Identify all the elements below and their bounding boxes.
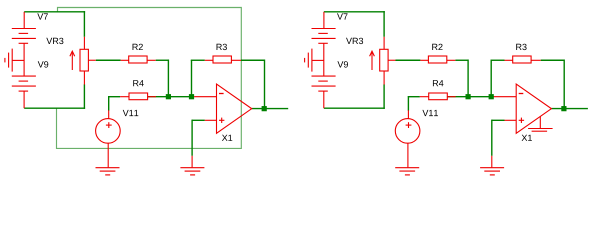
battery V9 plate short 2 <box>318 90 328 92</box>
battery V7 top lead <box>23 12 25 29</box>
wire battery mid lead <box>323 43 325 76</box>
ground V11 bar 3 <box>105 174 110 176</box>
resistor R2 body <box>428 56 446 63</box>
resistor R3 body <box>213 56 231 63</box>
battery V9 plate short 2 <box>19 90 29 92</box>
wire non-inverting down to ground <box>491 120 493 156</box>
wire VR3 wiper to R2 <box>96 59 121 61</box>
label V11 <box>123 110 139 116</box>
potentiometer VR3 arrow <box>371 52 373 70</box>
wire R4 left to V11 tap <box>108 96 120 98</box>
ground non-inverting lead <box>191 156 193 168</box>
wire VR3 bottom lead segment <box>383 84 385 109</box>
ground non-inverting lead <box>491 156 493 168</box>
ground V11 bar 3 <box>405 174 410 176</box>
potentiometer VR3 body <box>80 49 88 71</box>
battery V7 plate short 2 <box>19 42 29 44</box>
ground non-inverting bar 3 <box>190 174 195 176</box>
node R3 tap junction <box>489 94 494 99</box>
battery V7 plate short 1 <box>318 32 328 34</box>
label R2 <box>133 44 143 50</box>
resistor R4 left lead <box>120 96 129 98</box>
label V9 <box>38 61 49 67</box>
ground non-inverting bar 2 <box>185 170 201 172</box>
op-amp X1 triangle <box>217 84 252 133</box>
op-amp X1 reference pin lead <box>539 116 541 128</box>
wire R3 tap down <box>490 60 492 97</box>
resistor R3 body <box>513 56 531 63</box>
resistor R3 right lead <box>231 59 241 61</box>
source V11 top lead <box>407 110 409 118</box>
wire top rail (battery + to VR3 top) <box>24 11 85 13</box>
op-amp X1 plus symbol <box>219 119 224 121</box>
wire R2 to inverting drop <box>156 59 169 61</box>
source V11 top lead <box>108 110 110 118</box>
label VR3 <box>346 38 363 44</box>
wire R2 drop down to inverting node <box>467 60 469 97</box>
ground left bar short <box>4 58 6 63</box>
resistor R2 left lead <box>121 59 129 61</box>
op-amp X1 plus symbol <box>519 119 524 121</box>
op-amp X1 triangle <box>516 84 551 133</box>
label R2 <box>432 44 442 50</box>
label V7 <box>37 13 48 19</box>
resistor R2 body <box>129 56 147 63</box>
ground left bar long <box>311 49 313 72</box>
op-amp X1 inverting input pin <box>194 96 216 98</box>
source V11 circle <box>96 119 121 144</box>
wire R2 drop down to inverting node <box>167 60 169 97</box>
wire inverting node to R3 tap node <box>168 96 194 98</box>
ground non-inverting bar 1 <box>180 167 204 169</box>
op-amp X1 reference ground bar 2 <box>532 130 548 132</box>
battery V9 plate long 2 <box>312 85 336 87</box>
wire R4 right to inverting node <box>148 96 169 98</box>
wire feedback loop (light green) <box>57 8 242 149</box>
ground non-inverting bar 1 <box>480 167 504 169</box>
wire V11 drop <box>108 96 110 111</box>
ground V11 bar 2 <box>399 170 415 172</box>
wire VR3 top lead segment <box>83 11 85 37</box>
ground left bar long <box>11 49 13 72</box>
potentiometer VR3 bottom lead <box>383 71 385 85</box>
battery V9 plate short 1 <box>19 80 29 82</box>
battery V7 plate long 2 <box>312 37 336 39</box>
resistor R4 body <box>129 93 148 100</box>
wire bottom rail (battery - to VR3 bottom) <box>324 107 385 109</box>
resistor R4 left lead <box>420 96 429 98</box>
resistor R2 left lead <box>420 59 428 61</box>
label V11 <box>422 110 438 116</box>
potentiometer VR3 top lead <box>83 37 85 50</box>
ground V11 bar 1 <box>395 167 419 169</box>
resistor R3 left lead <box>205 59 213 61</box>
wire non-inverting input horizontal <box>192 119 205 121</box>
source V11 plus sign <box>106 124 112 126</box>
op-amp X1 minus symbol <box>519 93 524 95</box>
battery V9 bottom lead <box>323 91 325 108</box>
resistor R4 right lead <box>447 96 455 98</box>
wire op-amp output <box>252 108 289 110</box>
op-amp X1 non-inverting input pin <box>505 119 517 121</box>
resistor R2 right lead <box>447 59 456 61</box>
ground left bar medium <box>8 53 10 68</box>
wire R3 right horizontal <box>541 59 565 61</box>
wire R3 right horizontal <box>241 59 265 61</box>
battery V9 plate long 2 <box>12 85 36 87</box>
wire R4 left to V11 tap <box>408 96 420 98</box>
node op-amp output junction <box>561 106 566 111</box>
source V11 plus sign <box>406 124 412 126</box>
ground left (battery midpoint) lead <box>312 59 324 61</box>
battery V9 plate long 1 <box>312 75 336 77</box>
wire R3 output down <box>264 60 266 109</box>
wire battery mid lead <box>23 43 25 76</box>
wire op-amp output <box>551 108 588 110</box>
potentiometer VR3 wiper lead <box>89 59 96 61</box>
wire R3 left horizontal <box>191 59 205 61</box>
label X1 <box>222 135 232 141</box>
op-amp X1 inverting input pin <box>494 96 516 98</box>
wire V11 drop <box>407 96 409 111</box>
resistor R3 left lead <box>505 59 513 61</box>
ground left (battery midpoint) lead <box>12 59 24 61</box>
wire non-inverting down to ground <box>191 120 193 156</box>
label V9 <box>337 61 348 67</box>
wire R2 to inverting drop <box>455 59 468 61</box>
wire VR3 top lead segment <box>383 11 385 37</box>
label R3 <box>217 44 227 50</box>
wire VR3 wiper to R2 <box>396 59 421 61</box>
resistor R3 right lead <box>531 59 541 61</box>
ground non-inverting bar 2 <box>484 170 500 172</box>
resistor R2 right lead <box>147 59 156 61</box>
wire R3 output down <box>563 60 565 109</box>
resistor R4 right lead <box>148 96 156 98</box>
potentiometer VR3 wiper lead <box>388 59 395 61</box>
node R3 tap junction <box>189 94 194 99</box>
wire non-inverting input horizontal <box>492 119 505 121</box>
battery V9 bottom lead <box>23 91 25 108</box>
battery V7 plate long 1 <box>312 28 336 30</box>
op-amp X1 non-inverting input pin <box>205 119 217 121</box>
ground non-inverting bar 3 <box>490 174 495 176</box>
battery V9 plate short 1 <box>318 80 328 82</box>
battery V7 top lead <box>323 12 325 29</box>
source V11 bottom lead <box>107 143 109 167</box>
ground V11 bar 2 <box>100 170 116 172</box>
ground left bar medium <box>307 53 309 68</box>
label X1 <box>522 135 532 141</box>
op-amp X1 reference ground bar 1 <box>528 128 553 130</box>
battery V7 plate short 1 <box>19 32 29 34</box>
wire R4 right to inverting node <box>447 96 468 98</box>
battery V7 plate long 2 <box>12 37 36 39</box>
battery V9 plate long 1 <box>12 75 36 77</box>
label VR3 <box>46 38 63 44</box>
potentiometer VR3 body <box>380 49 388 71</box>
source V11 circle <box>395 119 420 144</box>
label R4 <box>433 80 444 86</box>
potentiometer VR3 bottom lead <box>83 71 85 85</box>
potentiometer VR3 top lead <box>383 37 385 50</box>
potentiometer VR3 arrow <box>71 52 73 70</box>
source V11 bottom lead <box>407 143 409 167</box>
wire VR3 bottom lead segment <box>83 84 85 109</box>
node inverting summing junction <box>466 94 471 99</box>
ground left bar short <box>304 58 306 63</box>
label R4 <box>133 80 144 86</box>
ground V11 bar 1 <box>96 167 120 169</box>
wire top rail (battery + to VR3 top) <box>324 11 385 13</box>
op-amp X1 minus symbol <box>219 93 224 95</box>
node inverting summing junction <box>166 94 171 99</box>
wire bottom rail (battery - to VR3 bottom) <box>24 107 85 109</box>
wire inverting node to R3 tap node <box>468 96 494 98</box>
wire R3 tap down <box>191 60 193 97</box>
label V7 <box>337 13 348 19</box>
resistor R4 body <box>429 93 448 100</box>
battery V7 plate short 2 <box>318 42 328 44</box>
wire R3 left horizontal <box>491 59 505 61</box>
battery V7 plate long 1 <box>12 28 36 30</box>
label R3 <box>516 44 526 50</box>
node op-amp output junction <box>262 106 267 111</box>
